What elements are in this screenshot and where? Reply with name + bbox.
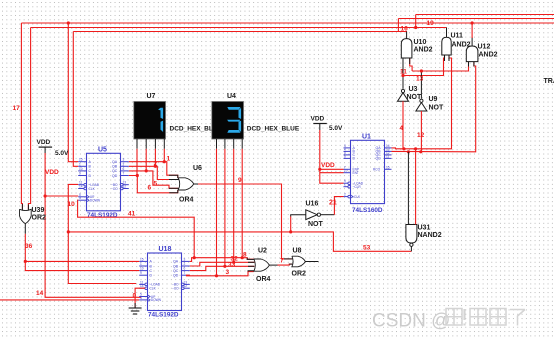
junction net53 mid: [67, 230, 70, 233]
label NOT U9: [429, 105, 445, 112]
label U10: [414, 39, 427, 46]
op-gate U11 AND2: [442, 37, 451, 55]
svg-text:14: 14: [36, 290, 44, 297]
svg-text:74LS160D: 74LS160D: [352, 207, 383, 214]
label U12: [478, 44, 491, 51]
svg-text:U3: U3: [409, 86, 418, 93]
label net 8: [243, 252, 247, 259]
wire net8 U18.QA to U2.in1: [190, 258, 254, 262]
svg-text:4: 4: [79, 196, 81, 200]
wire net21 U16 out: [321, 197, 344, 215]
svg-text:3: 3: [184, 257, 186, 261]
svg-text:VDD: VDD: [45, 169, 59, 176]
wire U4 pin2 riser: [224, 149, 226, 266]
wire U7 pin2 riser: [145, 149, 147, 171]
svg-text:U16: U16: [306, 201, 319, 208]
svg-text:4: 4: [140, 296, 142, 300]
label NOT U16: [308, 221, 324, 228]
label net 4: [400, 125, 404, 132]
wire U16 input riser: [291, 215, 306, 232]
label OR2 U8: [292, 271, 307, 278]
power VDD1 symbol: [37, 139, 53, 153]
label net 41: [128, 211, 136, 218]
wire U11 out stub: [446, 28, 448, 38]
label 5.0V left: [55, 150, 69, 157]
svg-text:QA: QA: [173, 260, 179, 264]
junction net13 U9 out: [420, 69, 423, 72]
junction VDD1 net10: [44, 194, 47, 197]
svg-text:10: 10: [344, 169, 348, 173]
label net 1: [167, 156, 171, 163]
label TRAFFIC clipped: [544, 78, 554, 85]
wire U4 pin4 riser: [241, 149, 243, 258]
wire net36 from U39: [25, 234, 139, 271]
label U3: [409, 86, 418, 93]
junction net8 U4pin4: [241, 256, 244, 259]
junction net11 U3 out: [401, 74, 404, 77]
svg-text:U7: U7: [147, 93, 156, 100]
svg-text:ENT: ENT: [353, 171, 359, 175]
svg-text:CLK: CLK: [354, 195, 361, 199]
svg-text:AND2: AND2: [414, 47, 433, 54]
svg-text:OR2: OR2: [32, 215, 47, 222]
label AND2 U10: [414, 47, 433, 54]
svg-text:U39: U39: [32, 207, 45, 214]
label VDD red left: [45, 169, 59, 176]
label U31: [418, 225, 431, 232]
op-gate U6 OR4: [178, 178, 194, 190]
junction net53 U16 riser: [289, 230, 292, 233]
svg-text:53: 53: [363, 245, 371, 252]
svg-text:12: 12: [123, 185, 127, 189]
label net 32: [231, 256, 239, 263]
junction VDD2 ENP: [318, 168, 321, 171]
svg-text:CSDN @: CSDN @: [372, 311, 450, 332]
svg-text:15: 15: [386, 165, 390, 169]
label NAND2 U31: [418, 232, 442, 239]
wire U4 pin3 riser: [233, 149, 235, 262]
wire net7 U2out to U8: [269, 264, 292, 265]
wire net16 top line B: [398, 18, 554, 20]
wire net2 QB to U6.in2: [129, 166, 179, 179]
wire net11 to U11.in1: [403, 55, 445, 76]
svg-text:VDD: VDD: [321, 162, 335, 169]
svg-text:11: 11: [400, 69, 407, 76]
svg-text:CLK: CLK: [89, 187, 96, 191]
svg-text:U31: U31: [418, 225, 431, 232]
wire U3 in riser net4: [402, 101, 404, 149]
svg-text:U11: U11: [451, 33, 464, 40]
op-gate U2 OR4: [254, 259, 270, 271]
label net 2: [154, 161, 158, 168]
svg-text:15: 15: [140, 257, 144, 261]
junction QBnet U9in: [419, 150, 422, 153]
label 74LS160D: [352, 207, 383, 214]
wire net17 top line C: [21, 22, 554, 24]
svg-text:~CO: ~CO: [111, 187, 118, 191]
wire net32 U18.QB to U2.in2: [190, 262, 255, 266]
wire VDD1 stem net14: [45, 153, 141, 297]
label net 21: [329, 200, 337, 207]
svg-text:2: 2: [123, 162, 125, 166]
svg-text:11: 11: [386, 154, 390, 158]
label U9: [429, 96, 438, 103]
svg-text:QA: QA: [112, 160, 118, 164]
junction net19 riser: [414, 26, 417, 29]
svg-text:9: 9: [238, 177, 242, 184]
wire U10 input stubs: [403, 58, 410, 64]
svg-text:1: 1: [140, 262, 142, 266]
svg-text:5.0V: 5.0V: [55, 150, 69, 157]
label net 3: [226, 269, 230, 276]
label net 0 gnd: [133, 293, 137, 300]
wire net19 left vertical to U39: [28, 28, 30, 210]
svg-text:3: 3: [123, 158, 125, 162]
svg-text:TRA: TRA: [544, 78, 554, 85]
junction net33 U4pin2: [223, 265, 226, 268]
wire U6 input stubs: [169, 175, 179, 193]
svg-text:QB: QB: [112, 165, 118, 169]
svg-text:DCD_HEX_BLUE: DCD_HEX_BLUE: [247, 126, 300, 133]
junction U12 out line C: [471, 21, 474, 24]
svg-text:DCD_HEX_BL: DCD_HEX_BL: [170, 126, 213, 133]
label net 16: [401, 25, 409, 32]
wire net16 line E: [73, 31, 407, 33]
junction net5 U7pin2: [145, 169, 148, 172]
junction net1 U7pin4: [163, 160, 166, 163]
label net 10: [68, 201, 76, 208]
junction net41 net8: [193, 256, 196, 259]
svg-text:U10: U10: [414, 39, 427, 46]
label U8: [293, 248, 302, 255]
svg-text:U9: U9: [429, 96, 438, 103]
svg-text:NOT: NOT: [308, 221, 324, 228]
svg-text:10: 10: [140, 267, 144, 271]
wire net9 U6 out: [194, 184, 292, 259]
svg-text:8: 8: [243, 252, 247, 259]
svg-text:~CO: ~CO: [172, 287, 179, 291]
label DCD_HEX_BL text U7: [170, 126, 213, 133]
svg-text:41: 41: [128, 211, 136, 218]
label net 17: [13, 105, 21, 112]
svg-text:2: 2: [154, 161, 158, 168]
label net 9: [238, 177, 242, 184]
display U4 DCD_HEX_BLUE: [212, 102, 244, 149]
label DCD_HEX_BLUE text U4: [247, 126, 300, 133]
label net 11: [400, 69, 407, 76]
svg-text:9: 9: [79, 172, 81, 176]
wire U12 input stubs: [469, 62, 474, 67]
label net 53: [363, 245, 371, 252]
svg-text:DOWN: DOWN: [151, 298, 162, 302]
svg-text:6: 6: [148, 185, 152, 192]
svg-text:14: 14: [79, 185, 83, 189]
wire U31 in2 riser: [415, 149, 417, 225]
wire U4 pin1 riser: [216, 149, 218, 276]
counter U18 74LS192D: [139, 246, 190, 319]
svg-text:1: 1: [167, 156, 171, 163]
svg-text:1: 1: [79, 162, 81, 166]
counter U5 74LS192D: [78, 147, 129, 220]
ground symbol: [129, 303, 142, 314]
svg-text:NAND2: NAND2: [418, 232, 442, 239]
wire U7 pin4 riser: [163, 149, 165, 162]
op-gate U8 OR2: [292, 256, 306, 267]
junction net36 branch: [24, 260, 27, 263]
svg-text:21: 21: [329, 200, 337, 207]
svg-text:NOT: NOT: [429, 105, 445, 112]
display U7 DCD_HEX_BLUE: [134, 102, 166, 149]
svg-text:17: 17: [13, 105, 21, 112]
wire net41 U5.DOWN: [78, 200, 195, 258]
label U6: [193, 165, 202, 172]
svg-text:QC: QC: [173, 269, 179, 273]
wire net13 to U10.in2: [410, 58, 412, 71]
wire VDD2 stem: [320, 130, 344, 183]
wire net3 U18.QD to U2.in4: [187, 272, 254, 276]
label net 12: [417, 132, 425, 139]
label OR4 U2: [256, 276, 271, 283]
wire U1.QB line to U12: [392, 62, 476, 152]
label net 5: [154, 181, 158, 188]
label VDD red right: [321, 162, 335, 169]
wire U10 out stub: [406, 32, 408, 39]
wire U3 out to U10.in1: [402, 58, 404, 89]
label U1: [362, 134, 371, 141]
label U39: [32, 207, 45, 214]
wire net17 left vertical to U39: [21, 23, 22, 209]
wire net33 U18.QC to U2.in3: [190, 266, 255, 270]
svg-text:~CLR: ~CLR: [353, 185, 362, 189]
svg-text:7: 7: [123, 172, 125, 176]
counter U1 74LS160D: [344, 140, 392, 203]
svg-text:U1: U1: [362, 134, 371, 141]
junction net17 x68: [67, 21, 70, 24]
wire net53 horizontal: [68, 232, 411, 251]
svg-text:RCO: RCO: [373, 168, 381, 172]
label U4: [227, 93, 236, 100]
svg-text:U12: U12: [478, 44, 491, 51]
junction QAnet U31in2: [414, 147, 417, 150]
svg-text:36: 36: [25, 243, 33, 250]
wire U12 out riser: [471, 23, 473, 46]
svg-text:U8: U8: [293, 248, 302, 255]
wire U8 input stubs: [284, 259, 292, 264]
svg-text:CLK: CLK: [150, 287, 157, 291]
power VDD2 symbol: [311, 116, 327, 131]
wire U2 input stubs: [247, 258, 254, 272]
wire VDD2 to ENP: [320, 168, 344, 170]
label AND2 U11: [452, 42, 471, 49]
op-gate U3 NOT: [398, 89, 409, 101]
op-gate U39 OR2: [20, 209, 32, 223]
wire net5 QC to U6.in3: [129, 171, 179, 188]
svg-text:13: 13: [416, 76, 424, 83]
svg-text:OR2: OR2: [292, 271, 307, 278]
wire net to U18 DOWN: [0, 299, 139, 301]
label net 14: [36, 290, 44, 297]
wire U39 input stubs: [22, 204, 28, 211]
junction net6 U7pin1: [136, 174, 139, 177]
op-gate U9 NOT: [416, 99, 427, 111]
svg-text:15: 15: [79, 158, 83, 162]
wire net10 to U5 UP: [45, 195, 78, 197]
svg-text:3: 3: [226, 269, 230, 276]
op-gate U10 AND2: [401, 39, 412, 58]
svg-text:5: 5: [154, 181, 158, 188]
svg-text:12: 12: [184, 284, 188, 288]
wire net19 top line A: [416, 14, 554, 16]
label U2: [258, 248, 267, 255]
wire net13 line: [412, 62, 468, 71]
junction net3 U4pin1: [215, 274, 218, 277]
wire U31 in1 riser: [407, 152, 409, 225]
svg-text:QD: QD: [376, 157, 382, 161]
label 5.0V right: [329, 125, 343, 132]
label net 36: [25, 243, 33, 250]
svg-text:12: 12: [417, 132, 425, 139]
wire net6 QD to U6.in4: [129, 176, 178, 193]
label OR4 U6: [179, 197, 194, 204]
svg-text:16: 16: [401, 25, 409, 32]
wire VDD2 to ENT: [320, 172, 344, 174]
svg-text:10: 10: [79, 167, 83, 171]
svg-text:U2: U2: [258, 248, 267, 255]
svg-text:14: 14: [140, 284, 144, 288]
svg-text:U6: U6: [193, 165, 202, 172]
svg-text:6: 6: [184, 267, 186, 271]
svg-text:OR4: OR4: [256, 276, 271, 283]
label NOT U3: [407, 94, 423, 101]
wire net19 line D: [31, 27, 447, 29]
svg-text:QD: QD: [112, 174, 118, 178]
watermark CSDN: [372, 309, 525, 333]
wire U18 clk to gnd: [135, 288, 145, 307]
wire net19 riser to line A: [415, 15, 417, 28]
wire net53 U5 load branch: [68, 184, 136, 283]
svg-text:OR4: OR4: [179, 197, 194, 204]
svg-text:4: 4: [400, 125, 404, 132]
op-gate U16 NOT: [306, 210, 321, 220]
svg-text:5.0V: 5.0V: [329, 125, 343, 132]
wire net36 to U18.A: [25, 260, 139, 262]
svg-text:QB: QB: [173, 264, 179, 268]
svg-text:7: 7: [184, 271, 186, 275]
wire U7 pin3 riser: [154, 149, 156, 167]
svg-text:U4: U4: [227, 93, 236, 100]
junction net2 U7pin3: [154, 165, 157, 168]
wire U1.QA line to U11: [392, 55, 452, 149]
junction net32 U4pin3: [232, 261, 235, 264]
wire U39 out stub: [24, 224, 26, 234]
wire net16 branch to U5.B: [73, 32, 78, 167]
wire net16 riser to line B: [397, 19, 399, 32]
svg-text:7: 7: [280, 258, 284, 265]
label net 13: [416, 76, 424, 83]
svg-text:9: 9: [140, 271, 142, 275]
op-gate U31 NAND2: [406, 225, 417, 247]
svg-text:6: 6: [123, 167, 125, 171]
svg-text:2: 2: [184, 262, 186, 266]
svg-text:19: 19: [427, 20, 435, 27]
svg-text:DOWN: DOWN: [90, 199, 101, 203]
label net 19: [427, 20, 435, 27]
wire U8 out stub: [305, 261, 318, 263]
svg-text:33: 33: [228, 262, 236, 269]
label net 7: [280, 258, 284, 265]
svg-text:QC: QC: [112, 169, 118, 173]
svg-text:6: 6: [344, 154, 346, 158]
junction QBnet U31in1: [407, 150, 410, 153]
svg-text:74LS192D: 74LS192D: [87, 212, 118, 219]
label net 6: [148, 185, 152, 192]
svg-text:VDD: VDD: [311, 116, 325, 123]
wire U11 input stubs: [445, 55, 450, 61]
svg-text:1: 1: [344, 183, 346, 187]
svg-text:0: 0: [133, 293, 137, 300]
wire net1 QA to U6.in1: [129, 162, 178, 178]
svg-text:U5: U5: [98, 147, 107, 154]
wire U9 in riser net12: [420, 111, 422, 152]
wire U7 pin1 riser: [136, 149, 138, 176]
svg-text:2: 2: [344, 193, 346, 197]
svg-text:U18: U18: [159, 246, 172, 253]
junction QAnet U3in: [402, 147, 405, 150]
label net 33: [228, 262, 236, 269]
wire U9 out riser: [420, 71, 422, 99]
svg-text:VDD: VDD: [37, 139, 51, 146]
label AND2 U12: [479, 52, 498, 59]
label OR2 U39: [32, 215, 47, 222]
svg-text:QD: QD: [173, 274, 179, 278]
svg-text:AND2: AND2: [479, 52, 498, 59]
label U7: [147, 93, 156, 100]
op-gate U12 AND2: [466, 46, 478, 62]
label U16: [306, 201, 319, 208]
label U11: [451, 33, 464, 40]
svg-text:74LS192D: 74LS192D: [148, 312, 179, 319]
wire U31 out stub: [410, 246, 412, 251]
wire net17 branch to U5.A: [68, 23, 78, 162]
